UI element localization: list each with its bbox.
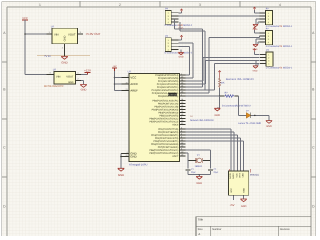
svg-text:22pF: 22pF	[214, 171, 219, 174]
wire net J1 pin2 to J3 pin2	[179, 15, 260, 17]
svg-text:MC78L05ACDTR: MC78L05ACDTR	[44, 85, 64, 88]
wire to AVCC pin	[115, 83, 122, 85]
svg-text:VOUT: VOUT	[66, 75, 74, 78]
wire ISP signal 1	[186, 128, 231, 130]
wire crystal left leg	[187, 158, 189, 169]
connector J2	[165, 38, 179, 52]
svg-text:GND: GND	[61, 61, 67, 65]
wire +5V rail	[114, 71, 116, 91]
svg-text:A: A	[198, 232, 200, 236]
pin 1 U1 VIN	[47, 31, 53, 34]
svg-text:AREF: AREF	[130, 89, 138, 93]
power symbol J1 pin1	[179, 9, 183, 13]
svg-text:VIN: VIN	[54, 33, 59, 36]
wire R1 to node	[219, 88, 221, 96]
connector J5	[260, 52, 273, 66]
wire R2 to LED	[238, 96, 240, 115]
svg-text:PB0(PCINT0/CLKO/ICP1): PB0(PCINT0/CLKO/ICP1)	[152, 100, 178, 103]
svg-text:D Connector(R) 4-04T345-2: D Connector(R) 4-04T345-2	[222, 105, 251, 108]
ground J2 wire	[178, 49, 184, 58]
svg-text:VCC: VCC	[230, 188, 233, 193]
svg-text:D Connector: D Connector	[266, 45, 280, 48]
svg-text:3: 3	[268, 60, 269, 63]
U3 right pin rows group PB	[149, 98, 185, 127]
wire node to ground	[219, 96, 221, 108]
svg-text:+5V: +5V	[229, 203, 234, 207]
title block	[196, 217, 311, 236]
svg-text:D Connector: D Connector	[165, 52, 178, 55]
crystal Y1	[188, 154, 211, 168]
wire ISP signal 4	[186, 137, 241, 139]
pin 3 U2 VIN	[47, 72, 55, 75]
svg-text:GND: GND	[81, 89, 87, 92]
wire ISP signal 5	[186, 140, 244, 142]
svg-text:MISO: MISO	[232, 173, 235, 179]
power symbol J3 pin1	[253, 7, 259, 13]
ground LED	[266, 121, 272, 128]
svg-text:PCINT13: PCINT13	[167, 94, 177, 97]
power port VCC	[22, 17, 28, 20]
power port +5V at R1	[219, 71, 221, 78]
capacitor C2	[208, 168, 219, 174]
svg-text:22pF: 22pF	[191, 171, 196, 174]
wire PD0 run	[186, 95, 220, 97]
svg-text:PC0(ADC0/PCINT8): PC0(ADC0/PCINT8)	[158, 77, 179, 80]
pin 22 U3 GND	[121, 154, 137, 159]
svg-text:4: 4	[279, 3, 281, 7]
svg-text:GND: GND	[215, 114, 221, 117]
svg-text:1: 1	[268, 12, 269, 15]
connector J1	[165, 10, 179, 24]
wire ISP VCC	[232, 195, 234, 200]
svg-text:PD6(PCINT22/OC0A/AIN0): PD6(PCINT22/OC0A/AIN0)	[151, 143, 178, 146]
pin 1 U2 VOUT	[76, 72, 82, 75]
junction VCC rail	[24, 33, 26, 35]
svg-text:GND: GND	[118, 173, 124, 177]
wire crystal right leg	[210, 158, 212, 169]
junction AVCC	[114, 77, 116, 79]
svg-text:+5.0V OUT: +5.0V OUT	[86, 32, 101, 36]
svg-text:4: 4	[168, 21, 169, 24]
resistor R1 10K vertical	[219, 77, 225, 88]
ground J1	[178, 27, 183, 30]
voltage regulator U2	[53, 69, 76, 85]
svg-text:Size: Size	[198, 228, 204, 231]
U3 right pin rows group PC	[152, 73, 186, 99]
ground J3	[253, 19, 260, 31]
wire VCC rail to U2 VIN	[25, 74, 47, 76]
svg-text:Siemens IRA-14DB10V: Siemens IRA-14DB10V	[226, 78, 255, 81]
wire VCC rail vertical	[24, 20, 26, 75]
svg-text:PC1(ADC1/PCINT9): PC1(ADC1/PCINT9)	[158, 80, 179, 83]
wire LED to ground	[251, 114, 269, 116]
svg-text:Revision: Revision	[280, 228, 291, 231]
svg-text:3: 3	[168, 45, 169, 48]
svg-text:PD1(PCINT17/TXD): PD1(PCINT17/TXD)	[158, 128, 178, 131]
ground U2	[80, 81, 87, 92]
power symbol J4 pin1	[253, 27, 259, 33]
pin 20 U3 AVCC	[122, 81, 138, 86]
ground R1 node	[214, 108, 220, 117]
svg-text:MOD4-1: MOD4-1	[283, 25, 293, 28]
svg-text:RST: RST	[238, 172, 241, 177]
svg-text:1: 1	[168, 12, 169, 15]
svg-text:4: 4	[268, 21, 269, 24]
junction VCC	[114, 83, 116, 85]
svg-text:PB3(PCINT3/OC2A/MOSI): PB3(PCINT3/OC2A/MOSI)	[152, 109, 179, 112]
svg-text:ADC6: ADC6	[172, 124, 179, 127]
svg-text:MOD4-2: MOD4-2	[183, 52, 193, 55]
svg-text:VCC: VCC	[22, 17, 28, 20]
microcontroller U3 ATmega8	[128, 71, 180, 162]
svg-text:GND: GND	[178, 55, 183, 58]
svg-text:7V IN: 7V IN	[44, 55, 50, 58]
svg-text:PB2(PCINT2/SS/OC1B): PB2(PCINT2/SS/OC1B)	[154, 106, 178, 109]
svg-text:2: 2	[168, 15, 169, 18]
LED D1	[246, 110, 251, 119]
svg-text:Network IRA-14DB10V: Network IRA-14DB10V	[190, 119, 214, 122]
svg-text:+12V: +12V	[84, 69, 91, 73]
wire olive horizontal	[37, 55, 90, 57]
svg-text:3: 3	[168, 18, 169, 21]
svg-text:3: 3	[199, 3, 201, 7]
svg-text:PD2(PCINT18/INT0): PD2(PCINT18/INT0)	[158, 131, 179, 134]
svg-text:3: 3	[268, 38, 269, 41]
wire net PC5 to J4 pin2	[186, 92, 210, 94]
svg-text:2: 2	[268, 35, 269, 38]
power port +12V	[81, 69, 91, 75]
svg-text:GND: GND	[266, 125, 272, 128]
connector J4	[260, 31, 273, 45]
wire to AREF pin	[115, 90, 122, 92]
svg-text:4: 4	[268, 41, 269, 44]
wire VCC to U1 VIN	[25, 33, 47, 35]
pin 2 U1 GND	[62, 44, 65, 52]
svg-text:PB4(PCINT4/MISO): PB4(PCINT4/MISO)	[158, 112, 178, 115]
svg-text:PD4(PCINT20/XCK/T0): PD4(PCINT20/XCK/T0)	[155, 137, 179, 140]
svg-text:1: 1	[268, 32, 269, 35]
U3 right pin rows group PD	[149, 127, 185, 159]
wire net PC0 to J2 pin2	[186, 77, 194, 79]
svg-text:VIN: VIN	[56, 75, 60, 78]
svg-text:Lumex TIL-C539 SMD: Lumex TIL-C539 SMD	[238, 122, 261, 125]
ground J5	[253, 61, 260, 73]
svg-text:PB6(PCINT6/XTAL1/TOSC1): PB6(PCINT6/XTAL1/TOSC1)	[149, 149, 178, 152]
highlighted pin name PC5	[168, 93, 177, 96]
ground J4	[253, 39, 260, 51]
svg-text:U?: U?	[128, 71, 132, 74]
wire to VCC pin	[115, 77, 122, 79]
connector P2 ISP header	[228, 171, 248, 195]
svg-text:PD5(PCINT21/OC0B/T1): PD5(PCINT21/OC0B/T1)	[153, 140, 178, 143]
svg-text:1: 1	[39, 3, 41, 7]
pin 3 U1 VOUT	[78, 31, 84, 34]
svg-text:GND: GND	[130, 155, 136, 159]
svg-text:SCK: SCK	[235, 173, 238, 178]
svg-text:VOUT: VOUT	[68, 33, 76, 36]
wire net PC4 to J1 pin4	[186, 89, 205, 91]
resistor R2 horizontal	[220, 92, 239, 98]
svg-text:1: 1	[168, 39, 169, 42]
pin 7 U3 VCC	[122, 75, 137, 80]
wire XTAL1 run	[186, 152, 189, 154]
svg-text:2: 2	[168, 42, 169, 45]
svg-text:10K: 10K	[220, 82, 225, 85]
svg-text:PD7(PCINT23/AIN1): PD7(PCINT23/AIN1)	[158, 146, 179, 149]
wire XTAL2 run	[186, 149, 211, 151]
connector J3	[260, 11, 273, 25]
svg-text:16MHz: 16MHz	[195, 165, 203, 168]
wire net PC6 to J2 pin3	[186, 74, 190, 76]
svg-text:4: 4	[268, 63, 269, 66]
pin 2 U2 GND	[76, 78, 82, 81]
pin 8 U3 GND	[121, 151, 137, 156]
svg-text:U?: U?	[51, 25, 55, 28]
wire net PC3 to J1 pin3	[186, 86, 203, 88]
svg-text:PC4(ADC4/SDA/PCINT12): PC4(ADC4/SDA/PCINT12)	[152, 89, 179, 92]
svg-text:Title: Title	[198, 217, 204, 221]
svg-text:GND: GND	[241, 205, 247, 208]
svg-text:GND: GND	[196, 182, 202, 185]
svg-text:PD3(PCINT19/OC2B/INT1): PD3(PCINT19/OC2B/INT1)	[151, 134, 178, 137]
pin 21 U3 AREF	[122, 88, 139, 93]
svg-text:PC6(RESET/PCINT14): PC6(RESET/PCINT14)	[155, 74, 178, 77]
svg-text:2: 2	[268, 57, 269, 60]
svg-text:GND: GND	[63, 35, 66, 41]
svg-text:D Connector: D Connector	[266, 66, 280, 69]
ground U1	[61, 52, 68, 65]
svg-text:PC3(ADC3/PCINT11): PC3(ADC3/PCINT11)	[157, 86, 179, 89]
svg-text:PB5(SCK/PCINT5): PB5(SCK/PCINT5)	[159, 115, 178, 118]
svg-text:Number: Number	[212, 228, 221, 231]
ground crystal	[196, 176, 202, 185]
ground ISP	[240, 199, 246, 208]
svg-text:PB7(PCINT7/XTAL2/TOSC2): PB7(PCINT7/XTAL2/TOSC2)	[149, 121, 178, 124]
svg-text:PC2(ADC2/PCINT10): PC2(ADC2/PCINT10)	[157, 83, 179, 86]
svg-text:MOD4-2: MOD4-2	[183, 24, 193, 27]
power symbol J5 pin1	[253, 49, 259, 55]
svg-text:MOSI: MOSI	[229, 173, 232, 179]
svg-text:4: 4	[168, 48, 169, 51]
svg-text:MOD4(1): MOD4(1)	[250, 173, 259, 176]
wire ISP GND	[243, 195, 245, 199]
voltage regulator U1	[51, 25, 78, 43]
svg-text:GND: GND	[68, 81, 74, 84]
svg-text:ATmega8-16PU: ATmega8-16PU	[129, 164, 148, 167]
power symbol J2 pin1	[179, 35, 183, 40]
svg-text:U?: U?	[53, 69, 57, 72]
svg-text:MOD4-1: MOD4-1	[283, 66, 293, 69]
svg-text:2: 2	[268, 15, 269, 18]
svg-text:PB7(PCINT7/XTAL2/TOSC2): PB7(PCINT7/XTAL2/TOSC2)	[149, 152, 178, 155]
svg-text:AVCC: AVCC	[130, 82, 138, 86]
junction R1 node	[219, 95, 221, 97]
svg-text:1: 1	[268, 54, 269, 57]
svg-text:ADC7: ADC7	[172, 155, 179, 158]
svg-text:PB1(PCINT1/OC1A): PB1(PCINT1/OC1A)	[158, 103, 179, 106]
wire caps to ground	[187, 171, 189, 175]
svg-text:GND: GND	[243, 188, 246, 193]
svg-text:3: 3	[268, 18, 269, 21]
svg-text:2: 2	[119, 3, 121, 7]
svg-text:VCC: VCC	[130, 76, 136, 80]
wire ISP signal 2	[186, 131, 235, 133]
wire ISP signal 3	[186, 134, 238, 136]
wire U3 GND pins	[120, 154, 122, 169]
svg-text:MOD4-1: MOD4-1	[283, 45, 293, 48]
svg-text:GND: GND	[253, 70, 258, 73]
svg-text:+5V: +5V	[112, 65, 117, 68]
pin marks ISP	[228, 169, 230, 171]
wire net PC4b to J5 pin4	[186, 89, 215, 91]
svg-text:D Connector: D Connector	[266, 25, 280, 28]
svg-text:D Connector: D Connector	[165, 24, 178, 27]
ground U3	[118, 168, 125, 177]
svg-text:PB6(PCINT6/XTAL1/TOSC1): PB6(PCINT6/XTAL1/TOSC1)	[149, 118, 178, 121]
svg-text:LED: LED	[242, 173, 245, 178]
wire net PC2 to J5 pin3	[186, 83, 206, 85]
capacitor C1	[185, 168, 196, 174]
wire net PC1 to J5 pin2	[186, 80, 204, 82]
